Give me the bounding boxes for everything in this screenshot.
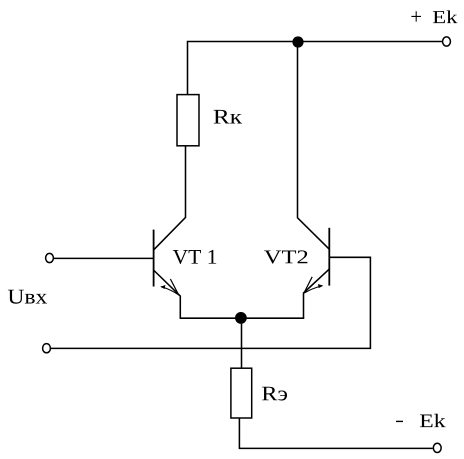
terminal input top-left (46, 253, 54, 262)
label -Ek (396, 421, 403, 422)
wire VT2 collector from top junction (298, 42, 330, 249)
label RE (262, 387, 287, 401)
terminal +Ek (443, 37, 451, 46)
node top junction (292, 36, 303, 47)
wire RE bottom rail (239, 418, 432, 448)
wire RK bottom to VT1 collector (154, 146, 186, 250)
wire emitter rail (180, 317, 305, 319)
VT2 small arrowhead (318, 284, 323, 288)
VT2 emitter (304, 269, 330, 318)
label RK (214, 110, 242, 124)
resistor RK (177, 95, 199, 146)
VT2 emitter arrow curve (304, 286, 322, 293)
terminal input bottom-left (43, 344, 51, 353)
VT1 small arrowhead (160, 285, 165, 289)
VT1 base bar (153, 230, 155, 287)
VT1 emitter arrow curve (161, 287, 179, 296)
wire top rail (188, 42, 442, 95)
wire emitter node to RE (241, 318, 243, 368)
label VT2 (264, 250, 307, 263)
label +Ek (411, 11, 421, 21)
wire input2 to VT2 base (51, 257, 371, 348)
wire VT1 base lead from input terminal (54, 257, 154, 259)
resistor RE (231, 368, 252, 418)
label Uvx (8, 290, 47, 304)
terminal -Ek (433, 443, 441, 452)
VT1 emitter arrow barb (170, 279, 178, 295)
label VT 1 (173, 250, 216, 264)
node emitter junction (235, 312, 247, 324)
VT2 emitter arrow barb (305, 277, 313, 292)
VT1 emitter (154, 271, 180, 319)
VT2 base bar (328, 228, 330, 286)
